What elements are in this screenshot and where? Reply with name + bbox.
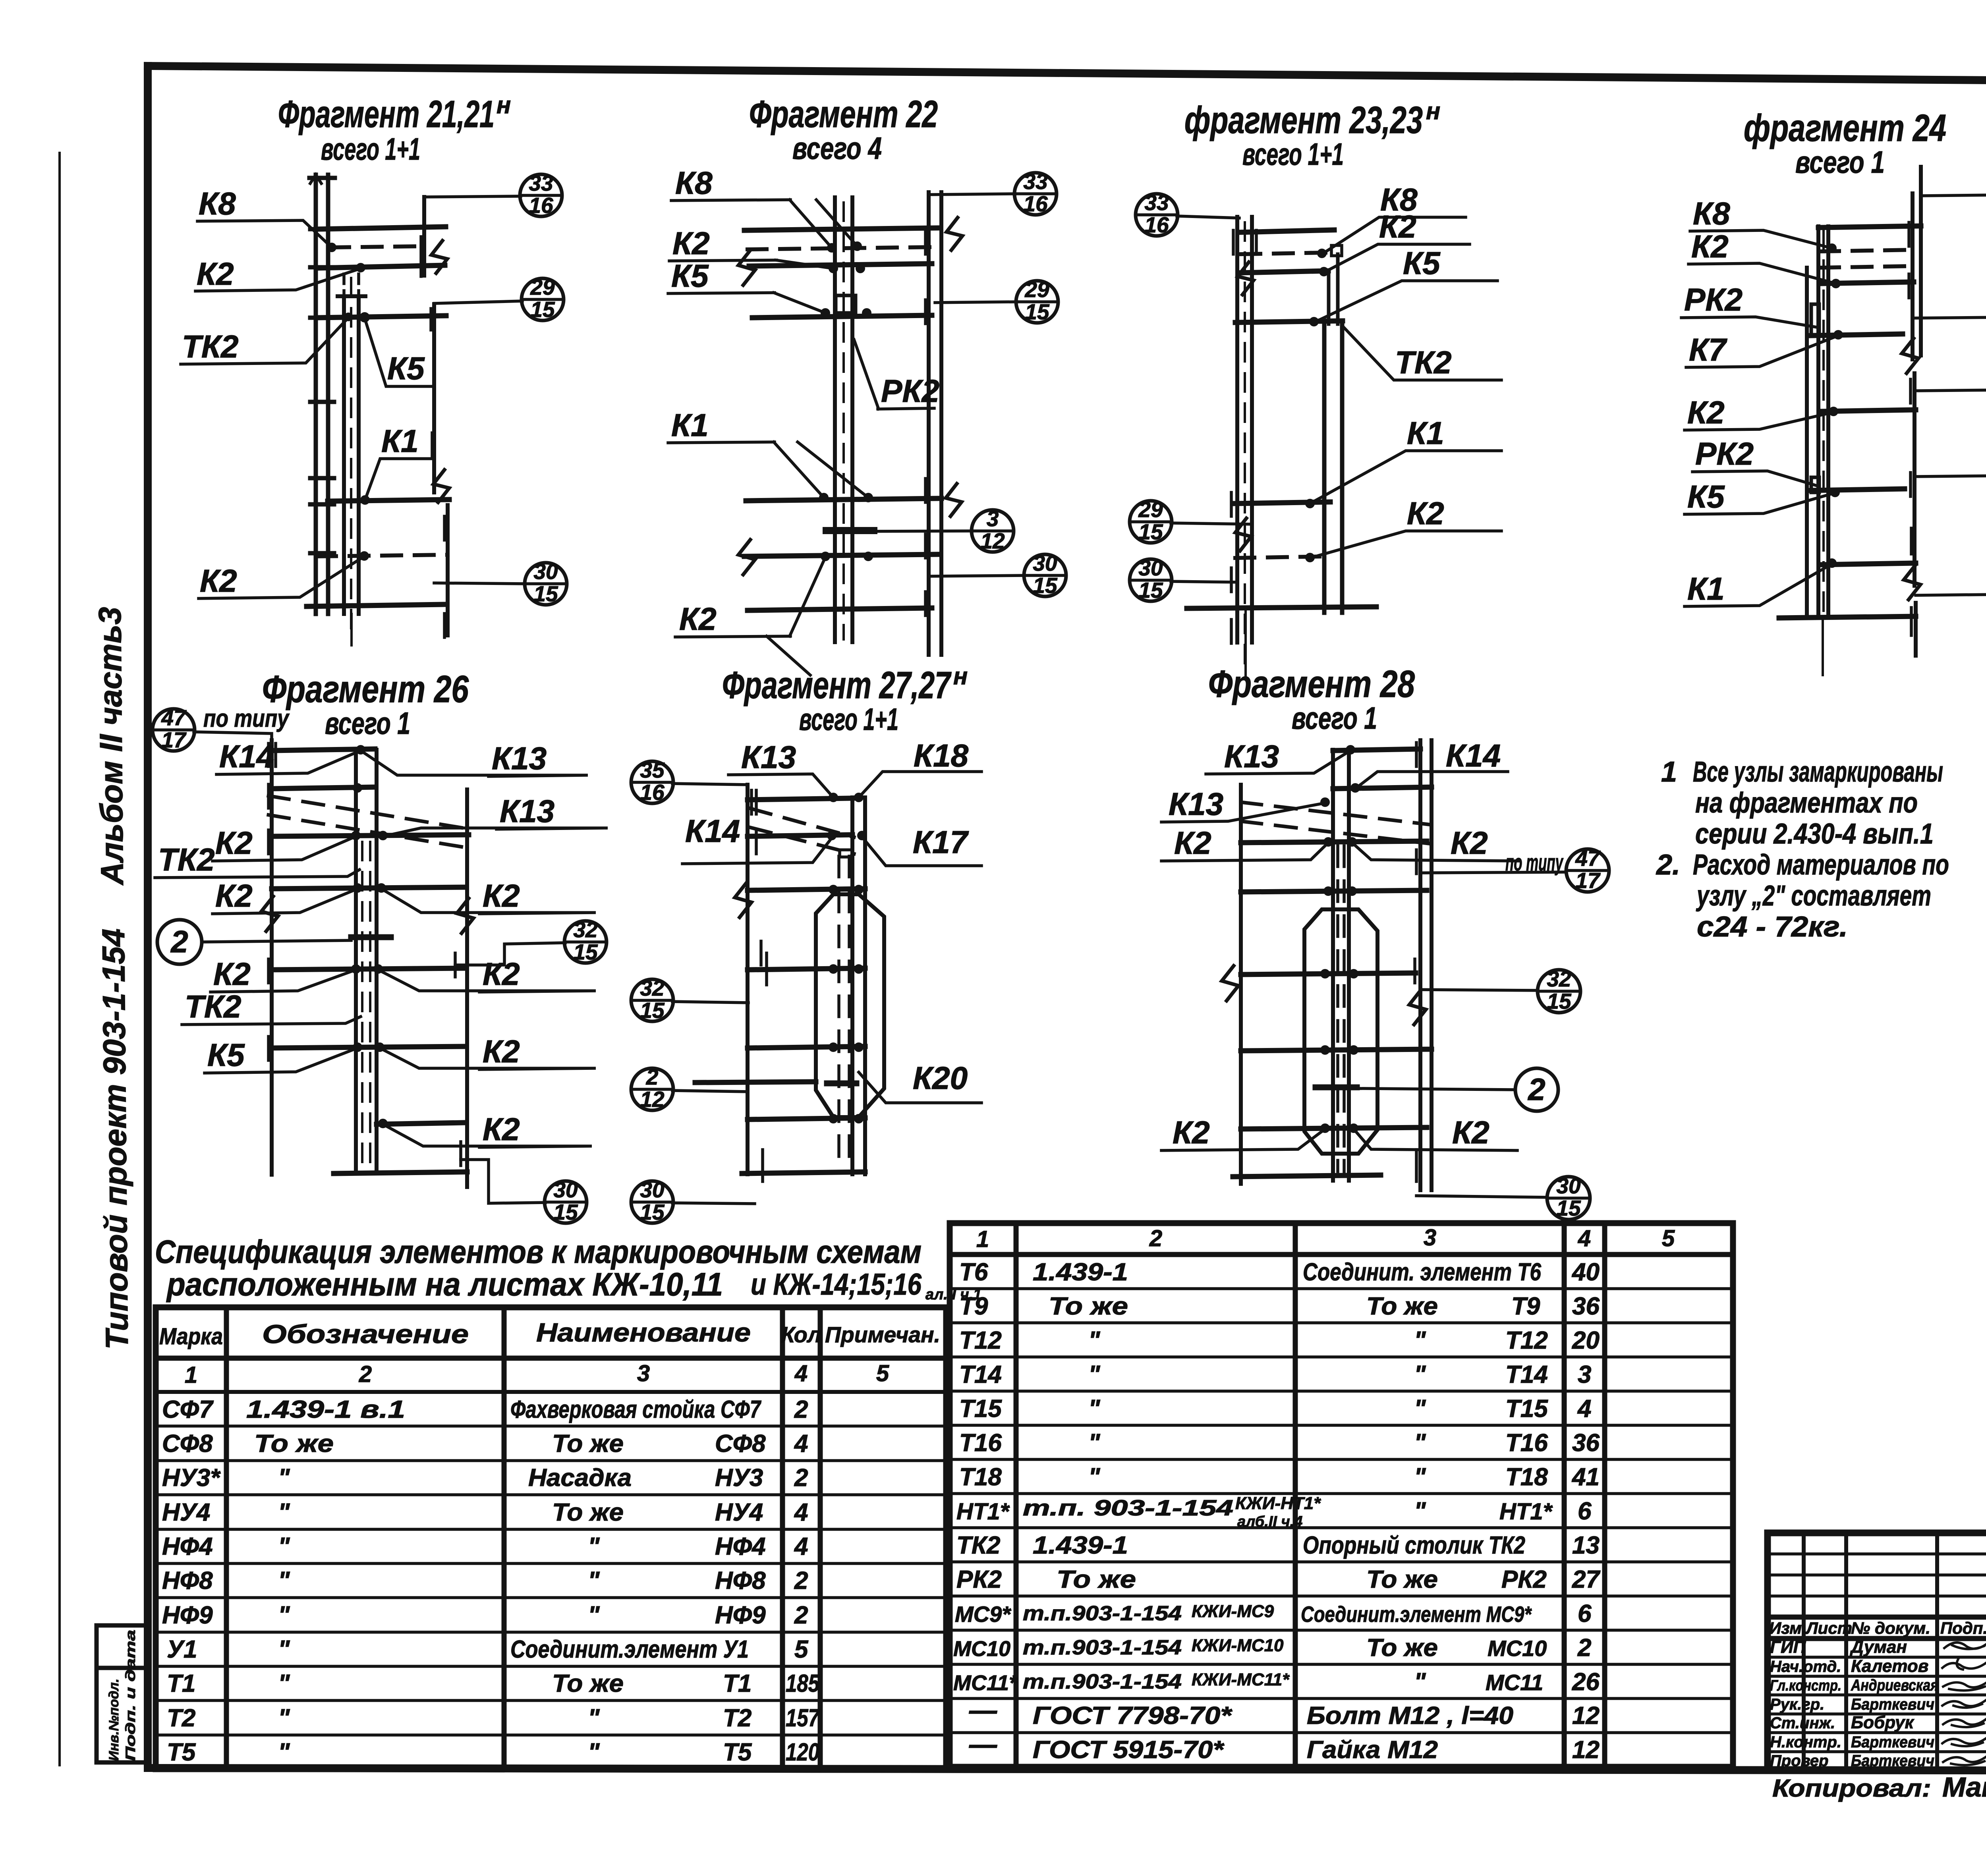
svg-text:26: 26 — [1572, 1668, 1600, 1696]
fragment 24 bolts — [1827, 243, 1843, 568]
svg-text:Макл: Макл — [1942, 1772, 1986, 1803]
svg-text:К17: К17 — [913, 824, 969, 860]
svg-text:16: 16 — [1144, 212, 1169, 237]
fragment 24 label K5 — [1685, 479, 1835, 514]
svg-text:То же: То же — [552, 1499, 624, 1526]
svg-text:Т14: Т14 — [1505, 1361, 1548, 1388]
svg-text:": " — [1414, 1327, 1426, 1354]
svg-text:ГОСТ 7798-70*: ГОСТ 7798-70* — [1033, 1702, 1233, 1729]
fragment 23 callout 33/16 — [1136, 190, 1239, 237]
svg-text:40: 40 — [1571, 1258, 1600, 1286]
svg-text:": " — [588, 1602, 600, 1629]
fragment 24 label K1 — [1685, 564, 1832, 606]
svg-text:15: 15 — [1138, 578, 1163, 602]
fragment 24 title — [1744, 107, 1946, 179]
svg-text:1: 1 — [1661, 756, 1677, 788]
svg-text:КЖИ-НТ1*: КЖИ-НТ1* — [1235, 1494, 1321, 1513]
fragment 27 K20 plate octagon — [816, 894, 884, 1117]
fragment 28 label K13 second — [1161, 786, 1325, 822]
fragment 26 label K2 right 5 — [383, 1112, 592, 1147]
svg-text:5: 5 — [794, 1636, 809, 1663]
svg-text:К2: К2 — [483, 956, 520, 992]
svg-text:РК2: РК2 — [956, 1566, 1002, 1593]
svg-text:2: 2 — [1149, 1226, 1162, 1251]
fragment 27 roof dashed braces — [751, 809, 854, 854]
fragment 21 title — [278, 92, 511, 166]
svg-text:": " — [278, 1464, 290, 1492]
svg-text:16: 16 — [640, 780, 665, 805]
svg-text:2: 2 — [646, 1065, 659, 1089]
svg-text:15: 15 — [640, 1200, 665, 1224]
svg-text:": " — [278, 1739, 290, 1766]
fragment 28 callout 32/15 — [1420, 967, 1580, 1013]
svg-text:36: 36 — [1572, 1293, 1600, 1320]
svg-text:Т16: Т16 — [1505, 1429, 1548, 1457]
svg-text:": " — [588, 1739, 600, 1766]
svg-text:15: 15 — [533, 581, 558, 606]
svg-text:6: 6 — [1578, 1600, 1592, 1627]
fragment 24 callout 29/15 — [1915, 451, 1986, 498]
fragment 24 column — [1807, 226, 1828, 620]
svg-text:3: 3 — [1578, 1361, 1591, 1388]
svg-text:расположенным на листах КЖ-1: расположенным на листах КЖ-10,11 — [166, 1266, 723, 1303]
svg-text:всего 1+1: всего 1+1 — [799, 702, 898, 737]
svg-text:185: 185 — [786, 1670, 820, 1697]
svg-text:27: 27 — [1572, 1566, 1600, 1593]
svg-text:всего 1+1: всего 1+1 — [1242, 137, 1344, 172]
title block revision header — [1769, 1619, 1986, 1637]
svg-text:20: 20 — [1572, 1327, 1600, 1354]
svg-text:2: 2 — [794, 1602, 808, 1629]
svg-text:К2: К2 — [215, 825, 253, 861]
svg-text:алб.II ч.4: алб.II ч.4 — [1237, 1513, 1302, 1530]
svg-text:": " — [588, 1704, 600, 1732]
svg-text:К1: К1 — [1407, 415, 1444, 451]
svg-text:Бобрук: Бобрук — [1851, 1713, 1915, 1732]
fragment 23 label K2 lower — [1310, 496, 1501, 558]
svg-text:47: 47 — [1575, 846, 1601, 870]
svg-text:НУ4: НУ4 — [162, 1499, 210, 1526]
svg-text:К2: К2 — [1451, 825, 1488, 861]
svg-text:К2: К2 — [1452, 1115, 1489, 1150]
svg-text:МС10: МС10 — [953, 1637, 1010, 1661]
svg-text:120: 120 — [786, 1739, 819, 1766]
svg-text:Провер: Провер — [1770, 1752, 1828, 1770]
fragment 28 label K13 top — [1206, 739, 1350, 774]
svg-text:У1: У1 — [167, 1636, 197, 1663]
fragment 21 label TK2 — [181, 318, 348, 364]
svg-text:№ докум.: № докум. — [1851, 1619, 1930, 1637]
svg-text:": " — [1088, 1463, 1101, 1491]
title block signature rows — [1770, 1637, 1938, 1770]
fragment 22 left break marks — [738, 250, 755, 575]
svg-text:РК2: РК2 — [1684, 282, 1743, 317]
svg-text:МС9*: МС9* — [955, 1602, 1011, 1627]
svg-text:РК2: РК2 — [1695, 436, 1754, 471]
fragment 22 callout 3/12 — [826, 506, 1014, 553]
fragment 24 right column segments — [1902, 167, 1921, 656]
fragment 24 callout 30/15 — [1916, 570, 1986, 617]
fragment 22 beams — [744, 228, 941, 610]
fragment 26 left vertical — [261, 740, 278, 1175]
svg-text:ГОСТ 5915-70*: ГОСТ 5915-70* — [1033, 1736, 1225, 1764]
fragment 22 label K2 lower — [675, 557, 825, 675]
fragment 24 callout 32/15 upper — [1913, 293, 1986, 340]
svg-text:Все узлы замаркированы: Все узлы замаркированы — [1693, 756, 1943, 788]
svg-text:Соединит.элемент У1: Соединит.элемент У1 — [510, 1636, 749, 1663]
svg-text:на фрагментах по: на фрагментах по — [1695, 787, 1918, 819]
svg-text:МС11*: МС11* — [953, 1671, 1018, 1695]
svg-text:4: 4 — [794, 1361, 808, 1386]
svg-text:2: 2 — [1527, 1072, 1545, 1107]
svg-text:Т9: Т9 — [959, 1293, 988, 1320]
fragment 23 callout 29/15 — [1130, 497, 1251, 544]
svg-text:": " — [278, 1533, 290, 1560]
svg-text:15: 15 — [640, 998, 665, 1023]
fragment 26 callout 32/15 — [455, 917, 607, 965]
sheet fold thin line left — [58, 153, 61, 1765]
svg-text:Альбом II часть3: Альбом II часть3 — [92, 607, 130, 886]
svg-text:17: 17 — [1575, 868, 1601, 893]
svg-text:фрагмент 23,23: фрагмент 23,23 — [1184, 99, 1423, 141]
svg-text:1: 1 — [185, 1362, 197, 1388]
spec table heading — [155, 1234, 981, 1303]
svg-text:т.п. 903-1-154: т.п. 903-1-154 — [1023, 1495, 1233, 1520]
svg-text:То же: То же — [1366, 1293, 1438, 1320]
svg-text:Обозначение: Обозначение — [262, 1319, 469, 1349]
sidebar box rotated caption — [106, 1630, 138, 1761]
svg-text:НТ1*: НТ1* — [1499, 1499, 1553, 1525]
svg-text:НФ4: НФ4 — [715, 1533, 766, 1560]
fragment 22 title — [749, 93, 938, 166]
fragment 21 beams — [307, 227, 449, 606]
svg-text:": " — [278, 1636, 290, 1663]
fragment 26 label K2 left 2 — [213, 878, 357, 914]
svg-text:н: н — [1426, 98, 1440, 124]
svg-text:1.439-1: 1.439-1 — [1033, 1258, 1128, 1286]
svg-text:К1: К1 — [1687, 571, 1725, 606]
svg-text:15: 15 — [1138, 519, 1163, 544]
fragment 21 callout 29/15 — [434, 275, 564, 322]
svg-text:": " — [278, 1704, 290, 1732]
left table data rows — [162, 1396, 820, 1766]
svg-text:Н.контр.: Н.контр. — [1770, 1733, 1841, 1751]
svg-text:3: 3 — [987, 506, 999, 531]
fragment 28 label K2 left — [1161, 825, 1328, 861]
middle table data rows — [953, 1258, 1600, 1764]
svg-text:т.п.903-1-154: т.п.903-1-154 — [1023, 1636, 1182, 1659]
svg-text:36: 36 — [1572, 1429, 1600, 1457]
fragment 27 title — [722, 663, 968, 737]
fragment 26 label K2 left upper — [213, 825, 356, 861]
fragment 23 label K2 — [1324, 209, 1470, 272]
svg-text:К5: К5 — [671, 258, 709, 293]
fragment 27 callout 35/16 — [631, 758, 748, 805]
svg-text:Т18: Т18 — [1505, 1463, 1548, 1491]
fragment 27 callout 2/12 — [631, 1065, 748, 1112]
svg-text:3: 3 — [637, 1361, 650, 1386]
svg-text:": " — [1414, 1498, 1426, 1525]
svg-text:н: н — [496, 92, 511, 118]
fragment 21 callout 30/15 — [434, 559, 567, 606]
sidebar stamp: Типовой проект 903-1-154 — [96, 928, 135, 1350]
svg-text:17: 17 — [161, 728, 187, 752]
svg-text:К2: К2 — [483, 878, 520, 913]
svg-text:Т14: Т14 — [959, 1361, 1002, 1388]
svg-text:всего 1+1: всего 1+1 — [321, 131, 420, 166]
svg-text:30: 30 — [1138, 556, 1163, 580]
svg-text:Опорный столик ТК2: Опорный столик ТК2 — [1303, 1532, 1525, 1559]
svg-text:2.: 2. — [1656, 849, 1680, 881]
svg-text:—: — — [969, 1729, 997, 1760]
svg-text:К8: К8 — [675, 165, 713, 201]
svg-text:": " — [1088, 1327, 1101, 1354]
svg-text:Фахверковая стойка СФ7: Фахверковая стойка СФ7 — [510, 1396, 761, 1423]
svg-text:4: 4 — [794, 1533, 808, 1560]
title block left grid — [1768, 1533, 1986, 1770]
svg-text:ТК2: ТК2 — [185, 989, 241, 1024]
svg-text:Т2: Т2 — [723, 1704, 752, 1732]
svg-text:узлу „2" составляет: узлу „2" составляет — [1696, 880, 1931, 912]
fragment 26 label K13 top right — [361, 741, 588, 776]
fragment 24 label K2 mid — [1685, 395, 1833, 430]
svg-text:К14: К14 — [1446, 738, 1501, 773]
svg-text:": " — [1414, 1429, 1426, 1457]
svg-text:То же: То же — [552, 1670, 624, 1697]
fragment 26 title — [262, 668, 469, 741]
fragment 24 callout 43/17 — [1921, 170, 1986, 217]
svg-text:2: 2 — [794, 1464, 808, 1492]
fragment 24 label RK2 — [1681, 282, 1817, 327]
fragment 28 label K2 bottom right — [1354, 1115, 1517, 1150]
svg-text:30: 30 — [553, 1177, 578, 1202]
fragment 21 label K5 — [365, 318, 433, 386]
fragment 26 label TK2 left lower — [182, 989, 361, 1025]
svg-text:Гл.констр.: Гл.констр. — [1770, 1677, 1841, 1694]
svg-text:Насадка: Насадка — [528, 1464, 632, 1492]
svg-text:": " — [278, 1567, 290, 1594]
svg-text:32: 32 — [573, 917, 598, 942]
svg-text:12: 12 — [640, 1087, 665, 1112]
svg-text:Наименование: Наименование — [536, 1318, 751, 1347]
svg-text:35: 35 — [640, 758, 665, 782]
svg-text:Соединит. элемент Т6: Соединит. элемент Т6 — [1303, 1258, 1541, 1286]
svg-text:СФ8: СФ8 — [162, 1430, 213, 1457]
svg-text:5: 5 — [1662, 1226, 1675, 1251]
svg-text:НФ8: НФ8 — [162, 1567, 213, 1594]
svg-text:по типу: по типу — [203, 705, 290, 732]
fragment 28 beams — [1233, 749, 1432, 1177]
svg-text:с24 - 72кг.: с24 - 72кг. — [1697, 911, 1848, 943]
svg-text:К5: К5 — [207, 1037, 245, 1073]
fragment 23 beams — [1187, 230, 1376, 677]
svg-text:6: 6 — [1578, 1498, 1592, 1525]
svg-text:т.п.903-1-154: т.п.903-1-154 — [1023, 1602, 1182, 1625]
svg-text:НТ1*: НТ1* — [956, 1499, 1010, 1525]
fragment 24 label RK2 lower — [1692, 436, 1817, 486]
svg-text:15: 15 — [1033, 573, 1058, 598]
fragment 28 title — [1208, 663, 1415, 735]
svg-text:К2: К2 — [1407, 496, 1444, 531]
svg-text:": " — [588, 1533, 600, 1560]
svg-text:Кол: Кол — [781, 1322, 821, 1347]
fragment 28 po tipu callout 47/17 — [1422, 846, 1609, 893]
svg-text:Т15: Т15 — [959, 1395, 1002, 1422]
svg-text:КЖИ-МС10: КЖИ-МС10 — [1192, 1636, 1284, 1655]
svg-text:Т5: Т5 — [167, 1739, 196, 1766]
svg-text:33: 33 — [529, 171, 553, 195]
left table header row — [159, 1318, 940, 1388]
fragment 23 callout 30/15 — [1130, 556, 1237, 602]
fragment 21 label K1 — [365, 423, 431, 500]
svg-text:2: 2 — [170, 924, 188, 959]
fragment 28 K20 plate octagon — [1304, 909, 1377, 1154]
svg-text:К2: К2 — [213, 956, 251, 992]
svg-text:То же: То же — [1366, 1566, 1438, 1593]
fragment 24 label K8 — [1690, 196, 1832, 248]
svg-text:Т9: Т9 — [1511, 1293, 1540, 1320]
svg-text:32: 32 — [640, 976, 665, 1000]
svg-text:": " — [1088, 1361, 1101, 1388]
fragment 26 label K2 left 3 — [211, 956, 356, 992]
fragment 21 callout 33/16 — [424, 171, 562, 218]
svg-text:Примечан.: Примечан. — [825, 1322, 940, 1347]
svg-text:К1: К1 — [671, 407, 709, 443]
fragment 22 label K5 — [668, 258, 825, 313]
svg-text:К2: К2 — [1174, 825, 1211, 861]
fragment 24 beams — [1779, 226, 1921, 675]
svg-text:Т12: Т12 — [959, 1327, 1002, 1354]
fragment 26 label K13 second — [383, 793, 608, 836]
fragment 24 callout 32/15 second — [1915, 365, 1986, 412]
svg-text:Т1: Т1 — [167, 1670, 195, 1697]
svg-text:Т15: Т15 — [1505, 1395, 1548, 1422]
svg-text:всего 1: всего 1 — [1795, 145, 1885, 179]
svg-text:Т12: Т12 — [1505, 1327, 1548, 1354]
svg-text:15: 15 — [1025, 299, 1050, 324]
svg-text:1: 1 — [976, 1226, 989, 1252]
svg-text:4: 4 — [794, 1499, 808, 1526]
svg-text:Калетов: Калетов — [1851, 1656, 1928, 1676]
svg-text:ТК2: ТК2 — [182, 329, 239, 364]
svg-text:К7: К7 — [1689, 332, 1727, 367]
svg-text:То же: То же — [1366, 1634, 1438, 1662]
fragment 23 TK2 column right — [1324, 245, 1342, 613]
left table grid — [156, 1307, 946, 1769]
svg-text:всего 1: всего 1 — [1292, 701, 1377, 735]
svg-text:15: 15 — [530, 297, 555, 322]
fragment 21 fachwerk column — [309, 175, 335, 614]
fragment 26 callout 30/15 — [461, 1160, 587, 1224]
svg-text:": " — [1414, 1463, 1426, 1491]
svg-text:30: 30 — [1033, 551, 1057, 575]
fragment 23 bolts — [1305, 249, 1329, 562]
svg-text:НУ3*: НУ3* — [162, 1464, 221, 1492]
svg-text:2: 2 — [794, 1396, 808, 1423]
svg-text:К5: К5 — [387, 351, 425, 386]
svg-text:К2: К2 — [200, 563, 237, 598]
svg-text:К2: К2 — [672, 226, 710, 261]
svg-text:КЖИ-МС9: КЖИ-МС9 — [1192, 1602, 1274, 1621]
fragment 28 bolts — [1320, 745, 1360, 1133]
svg-text:КЖИ-МС11*: КЖИ-МС11* — [1192, 1670, 1290, 1689]
fragment 27 label K18 — [859, 738, 981, 797]
svg-text:": " — [1414, 1668, 1426, 1696]
svg-text:Марка: Марка — [159, 1324, 223, 1349]
svg-text:К2: К2 — [215, 878, 253, 913]
fragment 22 right column — [925, 192, 962, 655]
fragment 28 node circle 2 — [1316, 1068, 1558, 1111]
svg-text:К8: К8 — [199, 186, 236, 221]
fragment 26 beams — [272, 749, 469, 1173]
fragment 22 label RK2 — [854, 340, 939, 409]
title block frame — [1768, 1533, 1986, 1770]
svg-text:К14: К14 — [685, 813, 740, 849]
svg-text:МС10: МС10 — [1488, 1636, 1547, 1661]
svg-text:То же: То же — [1057, 1566, 1136, 1593]
fragment 22 bolts — [819, 241, 873, 561]
svg-text:РК2: РК2 — [1501, 1566, 1547, 1593]
svg-text:Думан: Думан — [1849, 1637, 1907, 1657]
svg-text:1.439-1 в.1: 1.439-1 в.1 — [246, 1396, 405, 1423]
svg-text:Типовой проект 903-1-154: Типовой проект 903-1-154 — [96, 928, 135, 1350]
svg-text:Спецификация элементов к марк: Спецификация элементов к маркировочным с… — [155, 1234, 922, 1270]
fragment 26 node circle 2 — [157, 920, 351, 964]
svg-text:": " — [278, 1602, 290, 1629]
svg-text:Барткевич: Барткевич — [1851, 1733, 1934, 1751]
svg-text:Гайка М12: Гайка М12 — [1307, 1736, 1438, 1764]
svg-text:РК2: РК2 — [881, 373, 939, 409]
fragment 28 roof dashed braces — [1241, 802, 1428, 843]
svg-text:Т2: Т2 — [167, 1704, 195, 1732]
fragment 27 label K13 — [728, 739, 833, 797]
svg-text:К20: К20 — [913, 1060, 968, 1096]
fragment 26 bolts — [351, 745, 388, 1128]
fragment 22 callout 30/15 — [932, 551, 1066, 598]
svg-text:серии 2.430-4 вып.1: серии 2.430-4 вып.1 — [1695, 818, 1934, 850]
svg-text:МС11: МС11 — [1486, 1670, 1543, 1695]
svg-text:29: 29 — [1138, 497, 1163, 522]
svg-text:К14: К14 — [219, 739, 274, 774]
fragment 26 label K2 right 3 — [378, 956, 596, 992]
svg-text:4: 4 — [794, 1430, 808, 1457]
svg-text:16: 16 — [1023, 191, 1048, 216]
svg-text:12: 12 — [1572, 1736, 1600, 1764]
svg-text:Копировал:: Копировал: — [1772, 1775, 1931, 1802]
fragment 27 left vertical — [735, 785, 767, 1181]
fragment 21 stoika verticals — [338, 274, 365, 635]
fragment 27 label K20 — [859, 1060, 981, 1103]
svg-text:29: 29 — [1024, 277, 1049, 302]
svg-text:Подп. и дата: Подп. и дата — [123, 1630, 138, 1761]
svg-text:13: 13 — [1572, 1532, 1600, 1559]
svg-text:": " — [588, 1567, 600, 1594]
fragment 28 stoika verticals — [1333, 750, 1349, 1181]
svg-text:То же: То же — [552, 1430, 624, 1457]
svg-text:и КЖ-14;15;16: и КЖ-14;15;16 — [751, 1268, 922, 1301]
svg-text:Т1: Т1 — [723, 1670, 752, 1697]
fragment 24 label K2 — [1688, 229, 1836, 284]
svg-text:К5: К5 — [1403, 245, 1441, 281]
svg-text:Соединит.элемент МС9*: Соединит.элемент МС9* — [1301, 1602, 1532, 1627]
svg-text:29: 29 — [530, 275, 555, 299]
svg-text:Т18: Т18 — [959, 1463, 1002, 1491]
svg-text:2: 2 — [359, 1361, 372, 1387]
svg-text:НФ4: НФ4 — [162, 1533, 213, 1560]
fragment 27 label K14 — [682, 813, 832, 864]
svg-text:К18: К18 — [914, 738, 969, 773]
svg-text:": " — [1088, 1395, 1101, 1422]
